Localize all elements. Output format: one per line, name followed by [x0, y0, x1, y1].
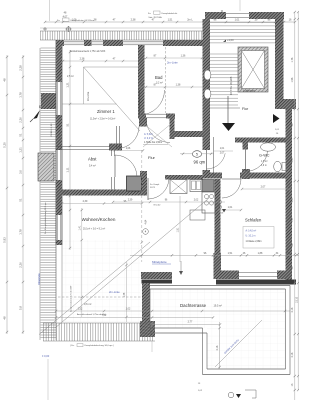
- roof edge lines below wall: [55, 245, 57, 322]
- terrace bottom edge: [207, 368, 286, 370]
- bad 2m dashed line: [165, 43, 167, 113]
- G-WC toilet: [274, 161, 282, 171]
- svg-text:1,01: 1,01: [228, 206, 233, 209]
- svg-text:Fa. Komplettabdeckung 34,0 qm: Fa. Komplettabdeckung 34,0 qm: [44, 202, 47, 234]
- svg-text:1,96: 1,96: [291, 77, 294, 82]
- svg-text:Mittelpfette: Mittelpfette: [152, 260, 167, 264]
- survey point marker: [66, 27, 70, 31]
- svg-text:3,0: 3,0: [19, 170, 23, 174]
- left band dark block: [41, 93, 56, 109]
- svg-text:20,1m² + 3,6 = 9,1 m²: 20,1m² + 3,6 = 9,1 m²: [83, 228, 105, 231]
- secondary roof diagonal: [39, 242, 150, 335]
- G-WC north wall: [235, 138, 288, 143]
- svg-text:Anschlussband 1,75 ab OKF: Anschlussband 1,75 ab OKF: [70, 285, 73, 312]
- svg-text:2,38: 2,38: [131, 19, 136, 22]
- dim line x180: [179, 196, 181, 262]
- svg-text:4,64: 4,64: [145, 219, 148, 224]
- kitchen fridge block: [202, 180, 214, 192]
- svg-text:2,38: 2,38: [80, 58, 85, 61]
- svg-text:Fa. Kompl.: Fa. Kompl.: [150, 184, 160, 186]
- roof area grid bottom-left: [62, 240, 140, 322]
- wall Wohnen/Schlafen: [215, 179, 221, 253]
- svg-text:5,8: 5,8: [19, 306, 23, 310]
- gully symbol: [228, 392, 234, 398]
- flur west partition: [116, 126, 118, 148]
- stairwell left wall: [203, 19, 211, 150]
- stair upper flight treads: [210, 23, 275, 43]
- svg-text:2,28: 2,28: [19, 65, 23, 71]
- schlafen top dim: [242, 188, 290, 190]
- door Schlafen: [222, 178, 241, 180]
- hall west edge line: [213, 137, 215, 175]
- svg-text:1,52: 1,52: [78, 308, 83, 311]
- kitchen lower block: [190, 210, 205, 220]
- wall Abst/Flur: [110, 151, 112, 157]
- svg-text:1,36: 1,36: [181, 55, 186, 58]
- svg-text:+1,00: +1,00: [227, 38, 234, 42]
- G-WC west wall: [243, 143, 249, 150]
- svg-text:Dachterrasse: Dachterrasse: [180, 303, 207, 308]
- wohnen center dim dashed: [141, 150, 143, 262]
- svg-text:16 STG 18,4/28: 16 STG 18,4/28: [229, 76, 233, 95]
- svg-text:51: 51: [19, 133, 23, 137]
- svg-text:1,88: 1,88: [258, 252, 263, 255]
- wall Zimmer1/Abst: [56, 145, 110, 147]
- unit number dim line: [180, 153, 214, 155]
- top main dimension chain: [45, 21, 295, 23]
- chimney block: [38, 153, 54, 181]
- G-WC west wall lower pier: [242, 169, 250, 179]
- zimmer1 niche hline bottom: [62, 103, 117, 105]
- terrace vert dim: [219, 322, 221, 369]
- svg-text:1,06: 1,06: [126, 148, 131, 150]
- svg-text:1,21: 1,21: [66, 82, 70, 88]
- right wall joint block: [275, 99, 296, 109]
- svg-text:2,07: 2,07: [220, 153, 225, 155]
- left wall windows: [56, 82, 58, 115]
- pier at Abst NE corner: [109, 144, 122, 151]
- bottom roof hatch band: [43, 322, 155, 324]
- svg-text:1,01: 1,01: [220, 148, 225, 150]
- svg-text:1,51: 1,51: [228, 252, 233, 255]
- right dimension chains: [294, 12, 296, 400]
- wohnen wall end pier: [140, 171, 147, 196]
- svg-text:1,06: 1,06: [72, 19, 77, 22]
- wall Bad east vertical: [170, 114, 175, 140]
- terrace west edge: [145, 286, 147, 326]
- svg-text:1.Höhe bis 1,50m: 1.Höhe bis 1,50m: [144, 142, 162, 144]
- section marker B: [33, 110, 40, 119]
- Bad WC: [204, 89, 211, 99]
- svg-text:3,2 m²: 3,2 m²: [156, 82, 163, 85]
- front wall west segment: [141, 272, 172, 279]
- terrace tile grid upper: [150, 289, 285, 328]
- svg-text:10,10: 10,10: [296, 296, 299, 303]
- Bad washbasin: [204, 70, 211, 80]
- svg-text:1,41: 1,41: [78, 225, 81, 230]
- svg-text:1,76: 1,76: [291, 57, 294, 62]
- svg-text:5: 5: [196, 153, 198, 157]
- wall Wohnen/Schlafen bottom pier: [214, 253, 222, 279]
- terrace door arrow: [180, 261, 182, 274]
- sockets: [218, 200, 221, 203]
- svg-text:1,51: 1,51: [291, 217, 294, 222]
- svg-text:2,39: 2,39: [128, 200, 133, 202]
- svg-text:48: 48: [3, 316, 7, 320]
- svg-text:2,16: 2,16: [291, 352, 294, 357]
- schlafen west dim: [219, 209, 241, 211]
- svg-text:2m-Linie: 2m-Linie: [167, 61, 178, 65]
- svg-text:G-WC: G-WC: [259, 154, 270, 158]
- svg-text:1,21: 1,21: [19, 147, 23, 153]
- terrace tile grid lower: [207, 328, 285, 369]
- stairwell right wall: [275, 19, 284, 99]
- svg-text:Flur: Flur: [242, 107, 249, 111]
- svg-text:2,5 m²: 2,5 m²: [67, 75, 74, 78]
- entry arrow right: [273, 114, 280, 123]
- svg-text:Flur: Flur: [148, 155, 156, 160]
- svg-text:OKBRH 0,88: OKBRH 0,88: [51, 123, 53, 136]
- kueche dim row: [113, 201, 225, 203]
- wall Flur/Wohnen (south of Abst): [56, 190, 142, 196]
- svg-text:Komplettabdeckung 34,0 qm ): Komplettabdeckung 34,0 qm ): [85, 344, 114, 347]
- wall Bad bottom: [138, 114, 146, 119]
- svg-text:Wohnen/Kochen: Wohnen/Kochen: [82, 217, 116, 222]
- svg-text:2,16: 2,16: [216, 345, 219, 350]
- elevator shaft: [238, 47, 268, 92]
- front wall pier C: [277, 271, 291, 280]
- svg-text:3,6 m²: 3,6 m²: [84, 302, 91, 306]
- svg-text:51: 51: [19, 198, 23, 202]
- svg-text:1,5 m²: 1,5 m²: [261, 160, 268, 163]
- 2m dashed line bottom: [58, 296, 143, 298]
- svg-text:2,07: 2,07: [261, 186, 266, 189]
- svg-text:1,78: 1,78: [19, 92, 23, 98]
- terrace step vertical: [202, 328, 204, 375]
- svg-text:± 0,00: ± 0,00: [42, 354, 50, 358]
- terrace step horizontal: [150, 327, 203, 329]
- top edge line: [40, 27, 210, 29]
- hall south wall piece: [210, 173, 222, 179]
- svg-text:Mittelpfette: Mittelpfette: [38, 273, 41, 285]
- svg-text:Zimmer 1: Zimmer 1: [97, 109, 115, 114]
- svg-text:2,39: 2,39: [83, 200, 88, 203]
- shaft block: [127, 176, 142, 191]
- bottom-left dim rows: [56, 310, 290, 312]
- svg-text:1,78: 1,78: [19, 229, 23, 235]
- wall Zimmer1/Bad end cap: [139, 118, 147, 127]
- left exterior wall: [55, 40, 57, 245]
- main roof diagonal: [55, 198, 209, 328]
- door Zimmer1: [117, 127, 139, 149]
- right exterior wall: [286, 109, 293, 281]
- svg-text:1,51: 1,51: [177, 227, 180, 232]
- zimmer1 niche hline top: [84, 66, 141, 68]
- svg-text:Sockelmauerwerk 1,75m ab SOK: Sockelmauerwerk 1,75m ab SOK: [70, 50, 106, 53]
- svg-text:2,16: 2,16: [291, 307, 294, 312]
- G-WC south wall: [240, 173, 288, 179]
- svg-text:1,9 m: 1,9 m: [261, 165, 267, 167]
- top wall windows: [64, 40, 84, 42]
- top exterior wall piers: [56, 40, 64, 46]
- survey cross marker: [43, 28, 47, 30]
- stairwell top wall: [205, 12, 226, 19]
- left band lower part: [41, 245, 57, 338]
- svg-text:Komplettdachfst: Komplettdachfst: [162, 12, 178, 15]
- svg-text:90/75: 90/75: [150, 187, 156, 189]
- schlafen annotation box: [243, 227, 274, 249]
- zimmer1 niche vline: [83, 67, 85, 104]
- kitchen north wall: [165, 175, 203, 180]
- door Bad leaf: [139, 90, 141, 115]
- svg-text:1,38: 1,38: [176, 84, 181, 87]
- gully slope line: [215, 320, 262, 367]
- top roof hatch band: [40, 30, 210, 32]
- svg-text:Abst: Abst: [88, 157, 97, 162]
- svg-text:Luftraum: Luftraum: [243, 89, 256, 93]
- G-WC sink: [261, 143, 276, 151]
- svg-text:2m L: 2m L: [187, 19, 193, 22]
- stairwell left wall lower pier: [203, 170, 211, 179]
- svg-text:5,20: 5,20: [3, 142, 7, 148]
- svg-text:2,01: 2,01: [291, 157, 294, 162]
- flur cross lines: [143, 123, 172, 147]
- svg-text:7,02: 7,02: [102, 314, 107, 317]
- svg-text:1,51: 1,51: [286, 252, 291, 255]
- wall Zimmer1/Bad: [138, 45, 145, 118]
- svg-text:U: 0,4 %: U: 0,4 %: [144, 138, 153, 140]
- stair lower flight treads: [210, 54, 238, 105]
- wohnen vert dim: [81, 208, 83, 317]
- terrace east edge: [285, 289, 287, 369]
- left outer dimension chain: [6, 55, 8, 334]
- door Flur/Wohnen: [147, 178, 149, 200]
- svg-text:U: 10,1 m: U: 10,1 m: [246, 236, 256, 238]
- shower box: [170, 180, 187, 194]
- kitchen stove unit: [202, 192, 215, 213]
- svg-text:1,01: 1,01: [235, 19, 240, 22]
- interior dimension chain Zimmer1: [69, 50, 71, 250]
- leader bottom mid: [151, 341, 153, 352]
- svg-text:1,51: 1,51: [168, 19, 173, 22]
- svg-text:5,93: 5,93: [3, 237, 7, 243]
- wall Flur north segment: [175, 131, 210, 137]
- unit circle label: [192, 151, 201, 158]
- stair direction arrow down: [222, 123, 235, 131]
- svg-text:Fa.: Fa.: [57, 20, 61, 22]
- svg-text:51: 51: [66, 123, 70, 126]
- svg-text:1,11: 1,11: [66, 167, 70, 173]
- svg-text:2,02: 2,02: [194, 200, 199, 202]
- svg-text:2m-Linie: 2m-Linie: [109, 290, 120, 294]
- svg-text:2,26: 2,26: [19, 262, 23, 268]
- svg-text:A: 14,0 m²: A: 14,0 m²: [246, 230, 257, 233]
- flur small dim row: [115, 150, 143, 152]
- svg-text:1,38: 1,38: [124, 292, 126, 297]
- svg-text:48: 48: [3, 78, 7, 82]
- svg-text:( Fa.: ( Fa.: [70, 345, 75, 347]
- terrace top dim: [152, 324, 220, 326]
- front wall base bar: [216, 280, 296, 285]
- parapet corner block: [140, 321, 155, 337]
- front wall window: [239, 272, 277, 274]
- svg-text:M 2,02: M 2,02: [154, 205, 161, 207]
- svg-text:Stat. 2K7U4A: Stat. 2K7U4A: [148, 16, 162, 19]
- schlafen bottom dim chain: [130, 254, 299, 256]
- zimmer1 diagonal: [84, 67, 141, 131]
- svg-text:1.Kökete 2,06m: 1.Kökete 2,06m: [246, 240, 262, 243]
- door G-WC: [245, 150, 247, 172]
- svg-text:19,5 m²: 19,5 m²: [214, 305, 223, 308]
- svg-text:11,5m² + 2,5m² = 14,2m²: 11,5m² + 2,5m² = 14,2m²: [90, 118, 115, 121]
- svg-text:Fa.: Fa.: [148, 13, 152, 15]
- kitchen sink unit: [190, 180, 202, 192]
- wohnen top dim: [62, 203, 142, 205]
- bad dim row: [146, 57, 202, 59]
- terrace inner edge top: [146, 285, 290, 287]
- svg-text:1,02: 1,02: [126, 308, 131, 311]
- svg-text:2,26: 2,26: [19, 117, 23, 123]
- svg-text:Schlafen: Schlafen: [245, 218, 262, 223]
- door Bad/Flur swing: [146, 119, 170, 143]
- svg-text:5,4 m²: 5,4 m²: [89, 165, 96, 168]
- svg-text:2m-Linie: 2m-Linie: [87, 91, 90, 101]
- svg-text:Bad: Bad: [155, 75, 163, 80]
- svg-text:2,77: 2,77: [188, 321, 193, 324]
- svg-text:A: 5,6m²: A: 5,6m²: [144, 133, 153, 136]
- left parapet vertical: [142, 283, 150, 321]
- roof area vert dim: [126, 262, 128, 322]
- left roof hatch band: [39, 48, 41, 340]
- door Abst: [114, 155, 116, 177]
- front wall pier B: [216, 271, 239, 280]
- svg-text:96 qm: 96 qm: [194, 160, 206, 165]
- stair hall door: [206, 150, 208, 170]
- left second dimension chain: [22, 55, 24, 334]
- stair landing line: [210, 107, 240, 109]
